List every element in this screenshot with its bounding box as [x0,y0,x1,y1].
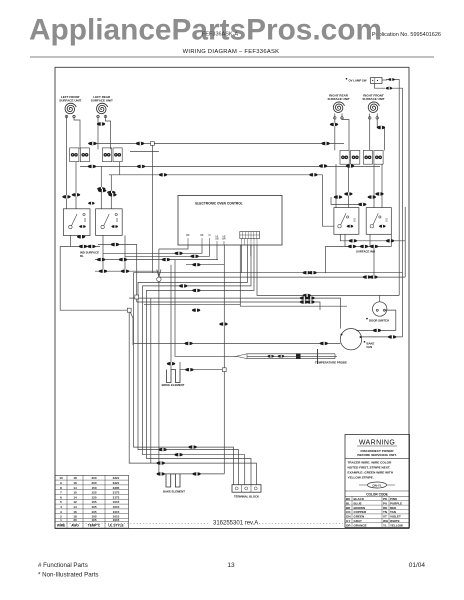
svg-text:105: 105 [91,518,96,522]
svg-text:OV LAMP SW: OV LAMP SW [349,78,367,82]
svg-text:10: 10 [73,491,77,495]
svg-text:ORANGE: ORANGE [354,523,367,527]
svg-text:BLACK: BLACK [354,497,365,501]
svg-text:16: 16 [73,510,77,514]
svg-text:NOTED FIRST, STRIPE NEXT.: NOTED FIRST, STRIPE NEXT. [348,466,391,470]
svg-text:GY: GY [346,519,350,523]
svg-text:* Non-Illustrated Parts: * Non-Illustrated Parts [38,572,99,579]
svg-text:DB: DB [215,237,219,240]
svg-text:1015: 1015 [113,505,120,509]
svg-text:WIRING DIAGRAM – FEF336ASK: WIRING DIAGRAM – FEF336ASK [183,49,280,55]
svg-text:TEMP°C: TEMP°C [88,523,101,527]
svg-text:3173: 3173 [113,491,120,495]
svg-text:TRACER WIRE: WIRE COLOR: TRACER WIRE: WIRE COLOR [348,461,393,465]
svg-text:TAN: TAN [390,510,396,514]
svg-text:YELLOW STRIPE.: YELLOW STRIPE. [348,476,374,480]
svg-text:200: 200 [91,476,96,480]
svg-text:N: N [209,234,211,237]
svg-text:VT: VT [383,515,387,519]
svg-text:14: 14 [73,495,77,499]
svg-text:BL: BL [346,501,350,505]
svg-text:1015: 1015 [113,510,120,514]
svg-text:IND: IND [116,218,119,222]
svg-text:GN-YL: GN-YL [372,483,382,487]
svg-text:14: 14 [73,505,77,509]
svg-text:IND: IND [354,218,357,222]
svg-text:13: 13 [227,562,235,569]
svg-text:SURFACE IND: SURFACE IND [356,250,375,254]
svg-text:150: 150 [91,486,96,490]
svg-text:YL: YL [383,523,387,527]
svg-text:IND: IND [386,218,389,222]
svg-text:AWG: AWG [71,523,79,527]
svg-text:18: 18 [73,476,77,480]
svg-text:3: 3 [60,510,62,514]
svg-text:WIRE: WIRE [57,523,65,527]
svg-text:SURFACE UNIT: SURFACE UNIT [91,98,113,102]
svg-text:SURFACE UNIT: SURFACE UNIT [59,98,81,102]
svg-text:3321: 3321 [113,481,120,485]
svg-text:BROWN: BROWN [354,506,366,510]
svg-text:20: 20 [73,518,77,522]
svg-text:RL: RL [80,254,84,258]
svg-text:9: 9 [60,481,62,485]
svg-text:# Functional Parts: # Functional Parts [38,562,88,569]
svg-text:4: 4 [60,505,62,509]
svg-text:14: 14 [73,486,77,490]
svg-text:IND: IND [84,218,87,222]
svg-text:105: 105 [91,505,96,509]
svg-text:12: 12 [73,500,77,504]
svg-text:BR: BR [222,237,226,240]
svg-text:WARNING: WARNING [359,440,395,447]
svg-text:COLOR CODE: COLOR CODE [366,492,388,496]
svg-text:BROIL ELEMENT: BROIL ELEMENT [162,383,185,387]
svg-text:ELECTRONIC OVEN CONTROL: ELECTRONIC OVEN CONTROL [195,201,242,205]
svg-text:TEMPERATURE PROBE: TEMPERATURE PROBE [315,361,347,365]
svg-text:EXAMPLE: GREEN WIRE WITH: EXAMPLE: GREEN WIRE WITH [348,471,394,475]
svg-text:7: 7 [60,491,62,495]
svg-text:TERMINAL BLOCK: TERMINAL BLOCK [234,495,259,499]
svg-text:18: 18 [73,481,77,485]
svg-text:OR: OR [346,523,351,527]
svg-text:3173: 3173 [113,495,120,499]
svg-text:YELLOW: YELLOW [390,523,403,527]
svg-text:3305: 3305 [113,486,120,490]
svg-text:CO: CO [346,510,351,514]
svg-text:10: 10 [59,476,63,480]
svg-text:GN: GN [346,515,351,519]
svg-text:3321: 3321 [113,476,120,480]
svg-text:UL STYLE: UL STYLE [108,523,123,527]
svg-text:FEF336ASK-A: FEF336ASK-A [202,32,238,38]
svg-text:SURFACE UNIT: SURFACE UNIT [362,97,384,101]
svg-text:WH: WH [383,519,388,523]
svg-text:PINK: PINK [390,497,398,501]
svg-text:6: 6 [60,495,62,499]
svg-text:SURFACE UNIT: SURFACE UNIT [328,97,350,101]
svg-text:PURPLE: PURPLE [390,501,402,505]
svg-text:105: 105 [91,500,96,504]
svg-text:BR: BR [346,506,351,510]
svg-text:1015: 1015 [113,518,120,522]
svg-text:125: 125 [91,491,96,495]
svg-text:WHITE: WHITE [390,519,400,523]
svg-text:COPPER: COPPER [354,510,368,514]
svg-text:RED: RED [390,506,397,510]
svg-text:01/04: 01/04 [409,562,426,569]
svg-text:8: 8 [60,486,62,490]
svg-text:GRAY: GRAY [354,519,362,523]
svg-text:1015: 1015 [113,500,120,504]
svg-text:BEFORE SERVICING UNIT.: BEFORE SERVICING UNIT. [357,453,396,457]
svg-text:VIOLET: VIOLET [390,515,401,519]
svg-text:200: 200 [91,481,96,485]
svg-text:BK: BK [346,497,351,501]
svg-text:AppliancePartsPros.com: AppliancePartsPros.com [29,14,382,47]
svg-text:DOOR SWITCH: DOOR SWITCH [369,319,389,323]
svg-text:FAN: FAN [367,345,373,349]
svg-text:105: 105 [91,510,96,514]
svg-text:RD: RD [383,506,388,510]
svg-text:PU: PU [383,501,387,505]
svg-text:BK: BK [186,234,190,237]
svg-text:316255301 rev.A: 316255301 rev.A [213,521,258,527]
svg-text:Publication No. 5995401626: Publication No. 5995401626 [372,32,441,38]
svg-text:WL: WL [200,234,204,237]
svg-text:5: 5 [60,500,62,504]
svg-text:BLUE: BLUE [354,501,362,505]
svg-text:PK: PK [383,497,388,501]
svg-text:TN: TN [383,510,387,514]
svg-text:BAKE ELEMENT: BAKE ELEMENT [163,490,185,494]
svg-text:GREEN: GREEN [354,515,365,519]
svg-text:125: 125 [91,495,96,499]
